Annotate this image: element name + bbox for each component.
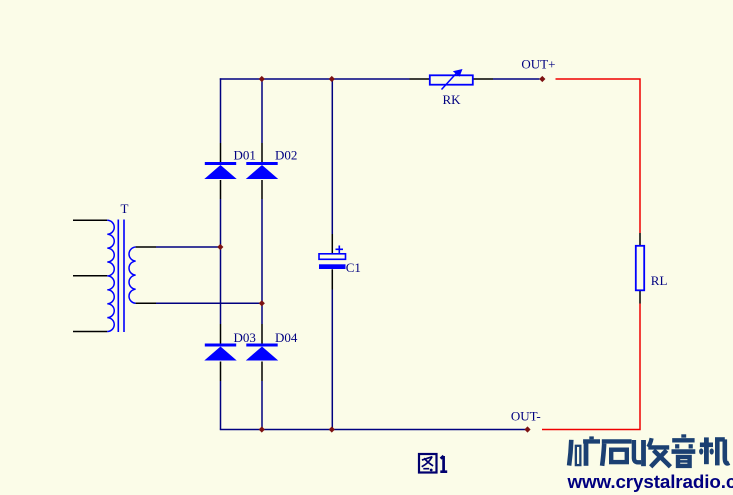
watermark logo text xyxy=(569,434,729,467)
node bottom rail x D02 branch xyxy=(259,426,265,432)
wire branch D02/D04 middle xyxy=(261,199,263,324)
rheostat RK xyxy=(410,69,494,107)
wire branch D01/D03 middle xyxy=(220,199,222,324)
node OUT+ junction xyxy=(539,76,545,82)
node top rail x C1 branch xyxy=(329,76,335,82)
resistor RL xyxy=(636,233,668,304)
wire secondary top to node xyxy=(156,246,220,248)
svg-text:T: T xyxy=(121,201,129,216)
svg-text:D03: D03 xyxy=(234,330,256,345)
svg-text:RL: RL xyxy=(651,273,668,288)
diode D01 xyxy=(204,143,256,199)
wire bottom rail xyxy=(220,429,527,431)
wire red RL bottom to OUT- xyxy=(542,304,640,430)
svg-text:OUT-: OUT- xyxy=(511,408,541,423)
diode D04 xyxy=(246,324,298,381)
svg-text:D01: D01 xyxy=(234,148,256,163)
svg-text:D02: D02 xyxy=(275,148,297,163)
node top rail x D02 branch xyxy=(259,76,265,82)
node secondary top x D01 branch xyxy=(217,244,223,250)
svg-text:www.crystalradio.cn: www.crystalradio.cn xyxy=(567,471,733,492)
capacitor C1 xyxy=(319,234,361,290)
wire branch C1 lower xyxy=(331,290,333,430)
wire branch C1 upper xyxy=(331,79,333,234)
caption 图1 xyxy=(419,454,447,473)
diode D02 xyxy=(246,143,298,199)
wire top rail right of RK xyxy=(493,78,540,80)
wire branch D02/D04 upper xyxy=(261,79,263,143)
node bottom rail x C1 branch xyxy=(329,426,335,432)
node secondary bottom x D02 branch xyxy=(259,300,265,306)
wire top rail xyxy=(220,78,410,80)
svg-text:OUT+: OUT+ xyxy=(521,56,555,71)
svg-text:C1: C1 xyxy=(346,260,361,275)
node OUT- junction xyxy=(524,426,530,432)
wire branch D01/D03 upper xyxy=(220,78,222,143)
wire branch D01/D03 lower xyxy=(220,381,222,430)
wire red OUT+ to RL top xyxy=(556,79,641,233)
diode D03 xyxy=(204,324,256,381)
svg-text:D04: D04 xyxy=(275,330,298,345)
transformer T xyxy=(73,201,156,332)
wire secondary bottom to node xyxy=(156,302,261,304)
wire branch D02/D04 lower xyxy=(261,381,263,430)
svg-text:RK: RK xyxy=(443,92,462,107)
